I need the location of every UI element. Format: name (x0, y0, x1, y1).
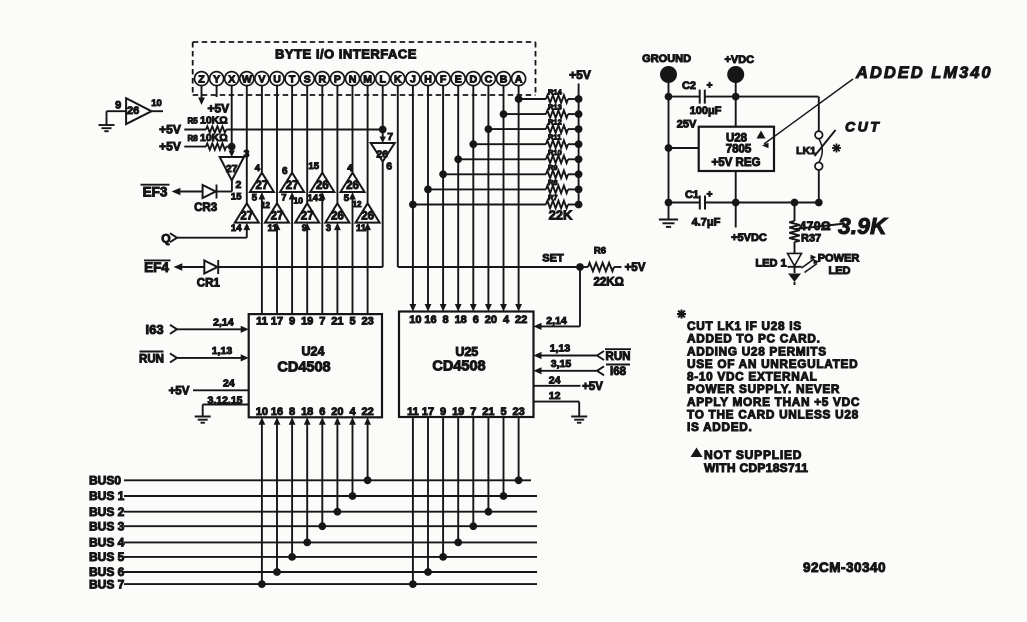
svg-text:4: 4 (349, 406, 356, 418)
svg-text:U24: U24 (302, 345, 325, 359)
svg-text:24: 24 (549, 374, 561, 386)
svg-text:LK1: LK1 (796, 145, 816, 157)
svg-text:EF3: EF3 (143, 185, 168, 200)
svg-text:IS ADDED.: IS ADDED. (687, 420, 753, 434)
svg-text:14: 14 (231, 223, 242, 234)
svg-text:26: 26 (376, 149, 388, 161)
svg-text:10: 10 (151, 98, 162, 109)
svg-text:R11: R11 (548, 133, 561, 142)
svg-text:5: 5 (500, 406, 506, 418)
svg-text:6: 6 (473, 314, 479, 326)
svg-text:LED: LED (829, 265, 851, 277)
svg-text:21: 21 (482, 406, 494, 418)
svg-text:4.7μF: 4.7μF (692, 217, 721, 229)
svg-text:BUS 1: BUS 1 (89, 489, 125, 503)
svg-text:+5V: +5V (625, 262, 646, 274)
svg-text:F: F (440, 73, 447, 85)
svg-text:6: 6 (282, 166, 288, 177)
svg-text:11: 11 (256, 316, 268, 328)
svg-text:26: 26 (127, 105, 139, 117)
svg-text:T: T (289, 73, 296, 85)
svg-text:R: R (319, 73, 327, 85)
svg-text:7: 7 (470, 406, 476, 418)
svg-text:27: 27 (301, 211, 314, 223)
svg-text:I68: I68 (610, 366, 627, 378)
svg-text:+5V: +5V (159, 123, 181, 137)
svg-text:X: X (228, 73, 235, 85)
svg-text:11: 11 (407, 406, 419, 418)
svg-text:BUS 5: BUS 5 (89, 550, 125, 564)
svg-text:I63: I63 (146, 322, 164, 337)
svg-text:E: E (455, 73, 462, 85)
svg-text:R10: R10 (548, 148, 562, 157)
svg-text:R37: R37 (801, 233, 821, 245)
svg-text:W: W (242, 73, 252, 85)
svg-text:BUS 7: BUS 7 (89, 577, 125, 591)
svg-text:100μF: 100μF (690, 105, 722, 117)
svg-text:R14: R14 (548, 88, 563, 97)
svg-text:10: 10 (294, 196, 304, 206)
svg-text:BUS 3: BUS 3 (89, 519, 125, 533)
svg-text:15: 15 (231, 192, 242, 203)
svg-text:+5V: +5V (207, 102, 229, 116)
svg-text:15: 15 (308, 161, 319, 172)
svg-text:L: L (379, 73, 386, 85)
svg-text:27: 27 (271, 211, 284, 223)
svg-text:3: 3 (326, 223, 331, 234)
svg-text:4: 4 (503, 314, 510, 326)
svg-text:25V: 25V (677, 119, 697, 131)
svg-text:8: 8 (289, 406, 295, 418)
svg-text:19: 19 (452, 406, 464, 418)
svg-text:ADDED LM340: ADDED LM340 (855, 64, 993, 82)
svg-text:6: 6 (386, 161, 392, 173)
svg-text:V: V (258, 73, 265, 85)
svg-text:20: 20 (485, 314, 497, 326)
svg-text:CR1: CR1 (197, 278, 221, 290)
svg-text:BUS 4: BUS 4 (89, 536, 125, 550)
svg-text:+5V REG: +5V REG (712, 157, 761, 169)
svg-text:23: 23 (361, 316, 373, 328)
svg-text:18: 18 (301, 406, 313, 418)
svg-text:12: 12 (353, 200, 362, 209)
svg-text:WITH CDP18S711: WITH CDP18S711 (704, 461, 808, 475)
svg-text:N: N (349, 73, 357, 85)
svg-text:5: 5 (349, 316, 355, 328)
svg-text:1,13: 1,13 (212, 345, 233, 357)
svg-text:J: J (410, 73, 416, 85)
svg-text:5: 5 (252, 193, 258, 204)
svg-text:7: 7 (387, 131, 393, 143)
svg-text:16: 16 (271, 406, 283, 418)
svg-text:BUS 2: BUS 2 (89, 505, 125, 519)
svg-text:+5V: +5V (582, 381, 603, 393)
svg-text:+5V: +5V (169, 385, 190, 397)
svg-text:3.9K: 3.9K (838, 213, 888, 239)
svg-text:22K: 22K (549, 208, 573, 223)
svg-text:92CM-30340: 92CM-30340 (803, 560, 886, 575)
svg-text:9: 9 (302, 223, 307, 234)
svg-text:21: 21 (331, 316, 343, 328)
svg-text:+: + (707, 81, 713, 92)
svg-text:24: 24 (223, 378, 235, 390)
svg-text:U: U (273, 73, 281, 85)
svg-text:20: 20 (331, 406, 343, 418)
svg-text:7805: 7805 (726, 144, 752, 156)
svg-text:NOT SUPPLIED: NOT SUPPLIED (704, 448, 802, 462)
svg-text:BYTE I/O INTERFACE: BYTE I/O INTERFACE (275, 47, 417, 62)
svg-text:+VDC: +VDC (724, 54, 754, 66)
svg-text:22: 22 (361, 406, 373, 418)
svg-text:7: 7 (319, 316, 325, 328)
svg-text:C1: C1 (685, 189, 699, 201)
svg-text:17: 17 (422, 406, 434, 418)
svg-text:2,14: 2,14 (213, 317, 234, 329)
svg-text:+: + (707, 190, 713, 201)
svg-text:11: 11 (356, 223, 367, 234)
svg-text:R6: R6 (594, 245, 606, 256)
svg-text:LED 1: LED 1 (755, 257, 786, 269)
svg-text:22KΩ: 22KΩ (594, 277, 624, 289)
svg-text:GROUND: GROUND (642, 53, 691, 65)
svg-text:2,14: 2,14 (546, 315, 567, 327)
svg-text:CD4508: CD4508 (277, 360, 330, 376)
svg-text:P: P (334, 73, 341, 85)
svg-text:+5V: +5V (569, 68, 591, 82)
svg-text:POWER: POWER (818, 252, 860, 264)
svg-text:10: 10 (256, 406, 268, 418)
svg-text:D: D (470, 73, 478, 85)
svg-text:26: 26 (331, 211, 344, 223)
svg-text:12: 12 (261, 201, 270, 210)
svg-text:CR3: CR3 (194, 202, 217, 214)
svg-text:17: 17 (271, 316, 283, 328)
svg-text:A: A (515, 73, 523, 85)
svg-text:R12: R12 (548, 118, 562, 127)
svg-text:EF4: EF4 (144, 260, 169, 275)
svg-text:9: 9 (115, 99, 121, 111)
svg-text:C2: C2 (682, 80, 696, 92)
svg-text:18: 18 (455, 314, 467, 326)
svg-text:R7: R7 (548, 193, 558, 202)
svg-text:6: 6 (319, 406, 325, 418)
svg-text:BUS0: BUS0 (89, 474, 121, 488)
svg-text:C: C (485, 73, 493, 85)
svg-text:10KΩ: 10KΩ (200, 115, 228, 127)
svg-text:CUT: CUT (845, 119, 881, 135)
svg-text:4: 4 (255, 163, 261, 174)
svg-text:1,13: 1,13 (550, 343, 571, 355)
svg-text:2: 2 (319, 193, 324, 204)
svg-text:R8: R8 (188, 134, 199, 143)
svg-text:12: 12 (549, 390, 561, 402)
svg-text:19: 19 (301, 316, 313, 328)
svg-text:R13: R13 (548, 103, 562, 112)
svg-text:R5: R5 (188, 117, 199, 126)
svg-text:3,15: 3,15 (551, 358, 572, 370)
svg-text:RUN: RUN (606, 351, 631, 363)
svg-text:+5V: +5V (159, 140, 181, 154)
svg-text:27: 27 (226, 163, 238, 175)
svg-text:R8: R8 (548, 178, 558, 187)
svg-text:26: 26 (316, 180, 329, 192)
svg-text:26: 26 (346, 180, 359, 192)
svg-text:H: H (424, 73, 432, 85)
svg-text:SET: SET (542, 253, 564, 265)
svg-text:R9: R9 (548, 163, 558, 172)
svg-text:5: 5 (344, 193, 350, 204)
svg-text:14: 14 (307, 193, 318, 204)
svg-text:27: 27 (240, 211, 253, 223)
svg-text:7: 7 (281, 193, 286, 204)
svg-text:+5VDC: +5VDC (731, 232, 767, 244)
svg-text:2: 2 (236, 179, 242, 191)
svg-text:22: 22 (515, 314, 527, 326)
svg-text:10: 10 (409, 314, 421, 326)
svg-text:23: 23 (512, 406, 524, 418)
svg-text:B: B (500, 73, 508, 85)
svg-text:26: 26 (361, 211, 374, 223)
svg-text:27: 27 (286, 180, 299, 192)
svg-text:K: K (394, 73, 402, 85)
svg-text:4: 4 (347, 163, 353, 174)
svg-text:Z: Z (198, 73, 205, 85)
svg-text:Q: Q (161, 232, 170, 246)
svg-text:S: S (304, 73, 311, 85)
svg-text:U25: U25 (455, 345, 478, 359)
svg-text:27: 27 (256, 180, 269, 192)
svg-text:8: 8 (443, 314, 449, 326)
svg-text:RUN: RUN (139, 353, 164, 365)
svg-text:10KΩ: 10KΩ (200, 132, 228, 144)
svg-text:16: 16 (424, 314, 436, 326)
svg-text:Y: Y (213, 73, 220, 85)
svg-text:9: 9 (289, 316, 295, 328)
svg-text:11: 11 (267, 223, 278, 234)
svg-text:9: 9 (440, 406, 446, 418)
svg-text:M: M (363, 73, 372, 85)
svg-text:CD4508: CD4508 (432, 359, 485, 375)
